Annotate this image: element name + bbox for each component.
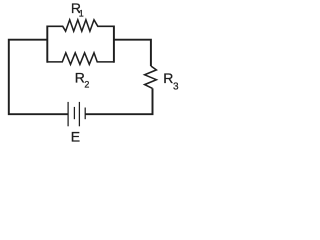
resistor R1 (top branch) bbox=[47, 20, 114, 31]
label R3 bbox=[163, 70, 179, 92]
resistor R2 (bottom branch) bbox=[47, 53, 114, 65]
svg-text:E: E bbox=[71, 129, 80, 142]
svg-text:R: R bbox=[163, 70, 173, 86]
battery E plate 1 (long) bbox=[67, 102, 69, 126]
label R2 bbox=[75, 69, 90, 89]
battery E plate 3 (long) bbox=[78, 102, 80, 126]
svg-text:3: 3 bbox=[173, 81, 179, 92]
node left edge of parallel box bbox=[46, 26, 48, 63]
resistor R3 (right branch, vertical) bbox=[145, 66, 157, 88]
svg-text:2: 2 bbox=[84, 79, 89, 89]
battery E plate 4 (short) bbox=[84, 108, 86, 120]
wire left loop (top-left horizontal, left vertical, bottom-left horizontal) bbox=[9, 40, 68, 115]
label R1 bbox=[71, 0, 84, 19]
svg-text:1: 1 bbox=[79, 9, 84, 19]
wire top-right (box to right corner, down to R3) bbox=[114, 40, 151, 66]
wire bottom-right (down from R3, along bottom to battery) bbox=[85, 88, 152, 114]
battery E plate 2 (short) bbox=[73, 107, 75, 119]
node right edge of parallel box bbox=[113, 26, 115, 63]
